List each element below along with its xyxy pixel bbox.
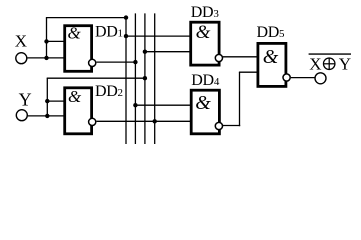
junction dot (153, 119, 157, 123)
junction dot (44, 56, 48, 60)
junction dot (45, 99, 49, 103)
svg-text:Y: Y (19, 89, 32, 109)
gate DD4 (191, 90, 222, 134)
svg-text:&: & (68, 87, 82, 106)
label output XNOR: overline (309, 53, 351, 55)
svg-text:Y: Y (339, 55, 351, 74)
wire to DD1 input 1 (47, 40, 64, 42)
wire bus Y to DD3 input 2 (145, 51, 190, 53)
wire X top route (46, 17, 126, 19)
wire DD1 output to bus NOT X (97, 61, 136, 63)
svg-text:X: X (309, 54, 321, 73)
wire DD2 output to DD4 input 2 (97, 120, 191, 122)
gate DD3 (191, 22, 223, 65)
gate DD2 (65, 87, 96, 134)
gate DD1 (65, 23, 96, 71)
wire to DD2 input 1 (47, 100, 64, 102)
bus line NOT Y (154, 13, 156, 144)
input terminal X (16, 53, 27, 64)
junction dot (44, 39, 48, 43)
wire DD5 output to terminal (291, 77, 315, 79)
junction dot (124, 34, 128, 38)
wire Y terminal to DD2 input 2 (28, 115, 64, 117)
junction dot (45, 114, 49, 118)
svg-text:&: & (196, 22, 211, 43)
wire DD3 output to DD5 input 1 (223, 56, 258, 58)
junction dot (133, 103, 137, 107)
wire DD4 output to riser (223, 125, 240, 127)
bus line NOT X (134, 13, 136, 144)
junction dot (143, 76, 147, 80)
svg-text:&: & (195, 92, 211, 114)
junction dot (124, 15, 128, 19)
wire Y over route (47, 77, 145, 79)
wire X terminal to DD1 input 2 (27, 57, 63, 59)
bus line Y (144, 13, 146, 144)
wire riser top to DD5 input 2 (239, 71, 258, 73)
label output XOR symbol (323, 58, 335, 70)
output terminal (315, 73, 326, 84)
wire riser DD4 to DD5 (239, 72, 241, 126)
junction dot (133, 60, 137, 64)
wire bus NOT X to DD4 input 1 (135, 104, 190, 106)
bus line X (125, 18, 127, 144)
junction dot (143, 50, 147, 54)
input terminal Y (16, 110, 27, 121)
gate DD5 (258, 43, 290, 86)
wire vertical Y riser (46, 78, 48, 116)
svg-text:&: & (263, 46, 279, 68)
svg-text:&: & (68, 23, 82, 42)
wire bus X to DD3 input 1 (126, 35, 190, 37)
wire vertical X riser (46, 18, 48, 59)
svg-text:X: X (15, 32, 27, 51)
